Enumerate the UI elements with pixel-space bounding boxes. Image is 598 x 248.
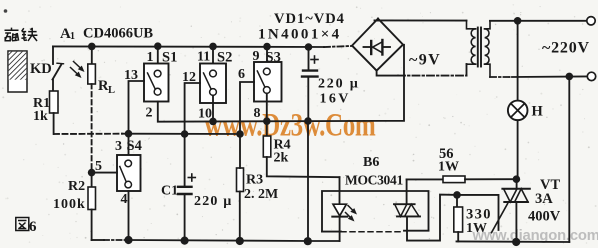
svg-text:2. 2M: 2. 2M: [244, 187, 278, 202]
svg-text:VD1~VD4: VD1~VD4: [274, 11, 345, 27]
reed switch KD: [53, 46, 64, 91]
resistor R2: [88, 172, 96, 240]
wire 330 top to VT gate: [457, 195, 499, 230]
svg-text:2: 2: [146, 106, 153, 121]
junction dots ground line: [209, 117, 312, 125]
resistor R1: [50, 91, 59, 134]
svg-text:R3: R3: [246, 173, 263, 188]
svg-text:1W: 1W: [466, 221, 487, 236]
junction dots timing node: [125, 130, 244, 138]
svg-text:220 µ: 220 µ: [318, 77, 360, 92]
resistor 330 ohm 1W: [454, 195, 463, 242]
svg-text:100k: 100k: [53, 197, 86, 212]
junction dot mains lower branch: [566, 73, 574, 81]
junction dots bottom rail: [124, 236, 520, 246]
svg-text:1: 1: [70, 31, 75, 42]
transformer T: [467, 21, 491, 77]
wire bridge AC bottom (to secondary bottom): [377, 64, 467, 76]
resistor 56 ohm 1W: [407, 176, 516, 183]
analog switch S2 (CD4066): [200, 46, 226, 122]
label 图6: [16, 218, 29, 231]
svg-text:6: 6: [238, 67, 245, 82]
svg-text:1: 1: [147, 50, 154, 65]
svg-text:S2: S2: [217, 50, 232, 66]
wire timing node (wire2 left, partly faded): [54, 133, 240, 135]
svg-text:11: 11: [197, 50, 210, 65]
svg-text:C1: C1: [161, 184, 178, 199]
analog switch S4 (CD4066): [117, 134, 141, 240]
svg-text:R2: R2: [68, 179, 85, 194]
svg-text:12: 12: [182, 70, 196, 85]
wire bottom rail: [92, 240, 308, 241]
optocoupler B6 MOC3041 box: [322, 191, 429, 232]
light arrows into RL: [71, 62, 85, 79]
wire S2 pin12 control: [185, 83, 200, 134]
MOC3041 photo-triac: [394, 179, 457, 240]
svg-text:CD4066UB: CD4066UB: [83, 26, 153, 42]
wire S3 pin6 control: [240, 82, 254, 134]
photoresistor RL: [88, 46, 96, 172]
junction dot VT MT2 node: [513, 175, 521, 183]
lamp H: [508, 21, 528, 179]
analog switch S3 (CD4066): [254, 47, 282, 122]
MOC3041 LED: [332, 177, 347, 241]
triac VT: [492, 179, 530, 242]
svg-text:S4: S4: [127, 138, 142, 154]
wire bridge top to transformer: [375, 19, 467, 21]
svg-text:~9V: ~9V: [409, 52, 441, 69]
svg-text:9: 9: [253, 49, 260, 64]
svg-text:220 µ: 220 µ: [194, 194, 233, 209]
svg-text:8: 8: [254, 106, 261, 121]
wire top rail: [53, 46, 351, 47]
stray mark top-left: [4, 9, 8, 13]
magnet (hatched box): [8, 51, 27, 92]
svg-text:400V: 400V: [528, 209, 561, 225]
capacitor C1: [178, 134, 195, 241]
wire rail to LED cathode: [308, 240, 340, 242]
terminal 220V top: [587, 17, 595, 25]
svg-text:1N4001×4: 1N4001×4: [258, 27, 342, 43]
junction dot lamp branch top: [514, 17, 522, 25]
terminal 220V bottom: [587, 72, 595, 80]
svg-text:B6: B6: [363, 155, 379, 170]
svg-text:16V: 16V: [320, 92, 351, 107]
svg-text:3A: 3A: [535, 191, 553, 207]
svg-text:3: 3: [115, 139, 122, 154]
svg-text:2k: 2k: [274, 151, 289, 166]
svg-text:4: 4: [121, 192, 128, 207]
svg-text:13: 13: [124, 68, 138, 83]
svg-text:1k: 1k: [33, 109, 48, 124]
capacitor C2 220u16V: [302, 47, 318, 241]
wire 220V bottom: [490, 76, 587, 242]
svg-text:6: 6: [29, 219, 37, 235]
wire S1 pin2 to ground line (wire1): [158, 45, 404, 122]
svg-text:MOC3041: MOC3041: [345, 173, 403, 188]
resistor R4: [263, 122, 339, 177]
wire 220V top: [490, 20, 587, 22]
junction dots +V top rail: [88, 42, 312, 50]
junction dot 330 top node: [453, 191, 461, 199]
wire S1 pin13 control: [129, 81, 145, 134]
svg-text:KD: KD: [30, 61, 52, 77]
svg-text:10: 10: [198, 107, 212, 122]
junction dot node R2/RL/pin5: [88, 169, 96, 177]
svg-text:5: 5: [95, 159, 102, 174]
watermark www.diangon.com: [472, 228, 598, 244]
wire bottom right rail: [457, 240, 570, 243]
svg-text:S1: S1: [162, 50, 177, 66]
analog switch S1 (CD4066): [144, 46, 169, 101]
label 磁铁 (magnet): [5, 28, 38, 41]
svg-text:H: H: [532, 104, 544, 120]
LED emission arrows: [346, 206, 358, 222]
svg-text:L: L: [108, 85, 115, 96]
svg-text:1W: 1W: [438, 160, 459, 175]
resistor R3: [237, 134, 244, 241]
bridge rectifier VD1-VD4: [352, 19, 403, 71]
svg-text:S3: S3: [266, 50, 281, 66]
watermark www.Dz3w.Com: [204, 107, 375, 143]
svg-text:~220V: ~220V: [542, 40, 590, 57]
wire S4 pin5 control: [92, 172, 117, 174]
